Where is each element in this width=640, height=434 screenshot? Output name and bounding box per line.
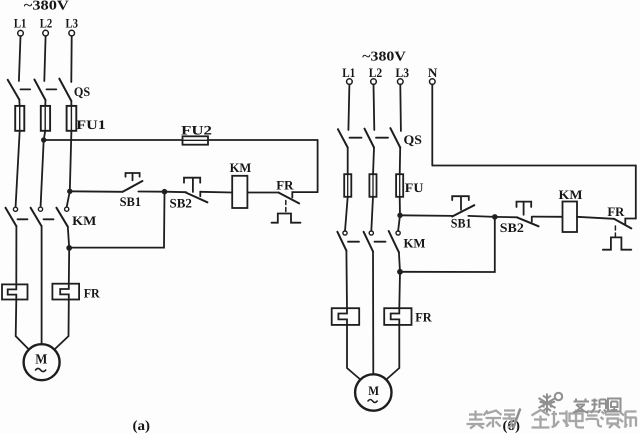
- switch QS (b) pole2 blade: [365, 129, 375, 148]
- fuse FU1 element 1 (a): [15, 106, 24, 131]
- svg-text:KM: KM: [559, 187, 583, 202]
- SB2 right contact stub (b): [531, 217, 533, 222]
- junction node on L2 (a): [41, 137, 46, 142]
- wire QS to FU pole1 (b): [347, 148, 349, 176]
- watermark slash: [513, 409, 520, 429]
- wire QS to FU1 pole3 (a): [70, 101, 72, 107]
- KM pole2 blade (b): [364, 232, 373, 252]
- svg-text:KM: KM: [404, 235, 426, 250]
- watermark char 电: [570, 410, 585, 428]
- svg-text:FR: FR: [84, 286, 101, 301]
- FR actuator dashed (a): [285, 201, 287, 213]
- FR heater element2 (b): [384, 308, 411, 325]
- coil KM (a): [232, 176, 247, 208]
- wire tap to SB1 (b): [400, 214, 452, 217]
- motor M (a): [24, 344, 60, 380]
- wire FU to KM pole2 (b): [371, 197, 373, 231]
- wire L1 FU1 to KM (a): [16, 131, 20, 207]
- FR heater element 2 (a): [52, 284, 79, 300]
- FR right terminal (b): [625, 219, 636, 226]
- FR right terminal (a): [292, 192, 317, 197]
- QS linkage dashes (a): [21, 88, 31, 90]
- wire L3 to QS (a): [70, 36, 72, 82]
- contactor KM (b) pole3 contact circle: [396, 231, 400, 235]
- svg-text:L3: L3: [396, 65, 410, 80]
- SB1 actuator cap (a): [126, 173, 140, 180]
- wire N right vertical (b): [635, 166, 637, 219]
- svg-text:M: M: [35, 353, 47, 368]
- SB2 right contact stub (a): [199, 192, 201, 197]
- FR contact blade (a): [279, 193, 299, 204]
- wire KM to FR heater pole3 (b): [399, 252, 400, 308]
- junction node latch (a): [66, 245, 72, 251]
- wire L2 FU1 to KM (a): [41, 131, 46, 207]
- contactor KM (b) pole2 contact circle: [369, 231, 373, 235]
- svg-text:KM: KM: [72, 213, 96, 228]
- wire SB2 to KM coil (b): [532, 216, 563, 218]
- KM linkage dashes (a): [18, 218, 28, 220]
- switch QS (b) pole1 blade: [338, 129, 348, 147]
- KM pole1 blade (a): [6, 208, 17, 227]
- SB2 actuator cap (b): [517, 202, 532, 215]
- FR contact blade (b): [614, 219, 631, 229]
- wire to FU2 (a): [44, 139, 183, 141]
- watermark row: 头条号/全球电气资源: [467, 409, 637, 429]
- wire KM to motor pole2 (b): [372, 252, 374, 375]
- KM pole3 blade (a): [56, 208, 67, 227]
- junction node on L3 (b): [397, 213, 402, 218]
- svg-text:(a): (a): [133, 419, 151, 434]
- wire N down (b): [431, 84, 433, 165]
- svg-text:FR: FR: [276, 177, 294, 192]
- watermark char 球: [552, 411, 569, 428]
- FR actuator dashed (b): [614, 226, 616, 237]
- switch QS (b) pole3 blade: [390, 128, 400, 147]
- wire FU2 to right side (a): [208, 139, 318, 141]
- wire KM coil to FR (b): [577, 217, 614, 219]
- wire QS to FU1 pole1 (a): [18, 100, 20, 107]
- logo char 圈: [608, 399, 621, 412]
- svg-text:QS: QS: [404, 132, 422, 147]
- contactor KM (a) pole3 contact circle: [65, 207, 69, 211]
- watermark char 头: [467, 411, 485, 429]
- watermark char 源: [620, 412, 637, 428]
- svg-text:FU1: FU1: [76, 117, 106, 132]
- watermark logo snowflake: [539, 393, 563, 413]
- svg-text:L3: L3: [66, 15, 79, 30]
- watermark char 条: [484, 411, 502, 428]
- FR thermal bump (b): [603, 237, 632, 249]
- wire heater1 to motor (b): [347, 325, 360, 380]
- svg-text:SB1: SB1: [120, 194, 142, 209]
- svg-text:~380V: ~380V: [24, 0, 69, 12]
- FR heater element1 (b): [332, 308, 360, 325]
- SB2 actuator cap (a): [184, 178, 200, 192]
- fuse FU element3 (b): [396, 174, 403, 197]
- svg-text:SB2: SB2: [170, 196, 192, 211]
- contactor KM (b) pole1 contact circle: [343, 231, 347, 235]
- wire QS to FU pole3 (b): [399, 148, 402, 176]
- svg-text:~380V: ~380V: [362, 48, 406, 63]
- svg-text:M: M: [368, 383, 379, 398]
- junction node SB1-SB2 (a): [162, 189, 168, 195]
- switch QS (a) pole 1 blade: [8, 80, 20, 100]
- wire KM to motor pole2 (a): [41, 226, 43, 344]
- QS linkage dashes (b): [350, 137, 362, 139]
- KM pole2 blade (a): [31, 208, 42, 227]
- KM linkage dashes (b): [348, 241, 359, 243]
- wire FU to KM pole3 (b): [398, 197, 400, 231]
- SB1 actuator cap (b): [452, 196, 469, 210]
- wire SB1 to junction (b): [468, 216, 495, 217]
- pushbutton SB2 (b) NO blade: [517, 218, 538, 227]
- svg-text:L2: L2: [369, 65, 383, 80]
- fuse FU1 element 2 (a): [41, 106, 50, 131]
- switch QS (a) pole 2 blade: [34, 80, 45, 101]
- wire L3 FU1 to KM (a): [67, 131, 72, 207]
- wire L2 to QS (a): [44, 36, 45, 81]
- wire junction to SB2 (b): [495, 216, 518, 218]
- wire KM to FR heater pole3 (a): [68, 227, 69, 284]
- fuse FU element1 (b): [344, 174, 351, 197]
- wire N horizontal (b): [432, 165, 636, 167]
- wire right vertical (a): [317, 140, 319, 192]
- svg-text:SB1: SB1: [451, 216, 472, 231]
- latch branch (b): [400, 217, 495, 272]
- svg-text:SB2: SB2: [500, 220, 524, 235]
- wire L2 to QS (b): [373, 84, 376, 130]
- svg-text:QS: QS: [74, 84, 90, 99]
- svg-text:FR: FR: [607, 204, 625, 219]
- wire KM to FR heater pole1 (a): [15, 226, 17, 284]
- pushbutton SB1 (b) NC blade: [452, 205, 474, 216]
- contactor KM (a) pole2 contact circle: [38, 207, 42, 211]
- FR heater element 1 (a): [2, 284, 28, 299]
- wire heater2 to motor (a): [54, 300, 68, 350]
- wire junction to SB2 (a): [165, 191, 187, 194]
- junction node latch (b): [397, 269, 403, 275]
- wire L3 to QS (b): [399, 84, 402, 131]
- wire KM coil to FR (a): [247, 192, 279, 194]
- switch QS (a) pole 3 blade: [59, 79, 71, 101]
- svg-text:FU: FU: [405, 180, 424, 195]
- junction node on L3 (a): [67, 189, 72, 194]
- logo char 频: [591, 399, 607, 414]
- watermark char 资: [601, 411, 621, 429]
- logo char 变: [573, 399, 589, 413]
- wire L1 to QS (a): [19, 36, 21, 81]
- junction node SB1-SB2 (b): [492, 214, 498, 220]
- KM pole3 blade (b): [389, 231, 399, 252]
- watermark logo text 变频圈: [573, 399, 621, 414]
- pushbutton SB2 (a) NO blade: [186, 193, 208, 203]
- coil KM (b): [563, 202, 578, 233]
- wire L1 to QS (b): [348, 84, 349, 130]
- watermark char 全: [532, 410, 550, 428]
- wire heater2 to motor (b): [386, 325, 399, 380]
- svg-text:L1: L1: [14, 15, 27, 30]
- svg-text:KM: KM: [230, 160, 252, 175]
- wire SB1 to junction (a): [138, 191, 164, 193]
- wire QS to FU1 pole2 (a): [44, 100, 46, 107]
- wire SB2 to KM coil (a): [200, 191, 232, 194]
- svg-text:FR: FR: [415, 310, 432, 325]
- contactor KM (a) pole1 contact circle: [13, 207, 17, 211]
- wire KM to FR heater pole1 (b): [345, 251, 348, 309]
- pushbutton SB1 (a) NC blade: [123, 181, 143, 192]
- wire FU to KM pole1 (b): [345, 197, 348, 231]
- FR thermal bump (a): [272, 214, 301, 223]
- svg-text:N: N: [428, 65, 438, 80]
- fuse FU element2 (b): [369, 174, 376, 197]
- svg-text:L1: L1: [342, 65, 355, 80]
- wire QS to FU pole2 (b): [373, 148, 374, 176]
- KM pole1 blade (b): [337, 232, 346, 251]
- wire L3 tap to SB1 (a): [70, 190, 123, 193]
- watermark char 气: [586, 411, 603, 427]
- svg-text:FU2: FU2: [181, 123, 212, 138]
- fuse FU2 (a): [183, 136, 209, 144]
- watermark char 号: [503, 411, 518, 428]
- fuse FU1 element 3 (a): [67, 106, 77, 131]
- latch branch (a): [69, 192, 164, 248]
- wire heater1 to motor (a): [16, 300, 29, 350]
- motor M (b): [355, 374, 391, 410]
- svg-text:L2: L2: [40, 15, 53, 30]
